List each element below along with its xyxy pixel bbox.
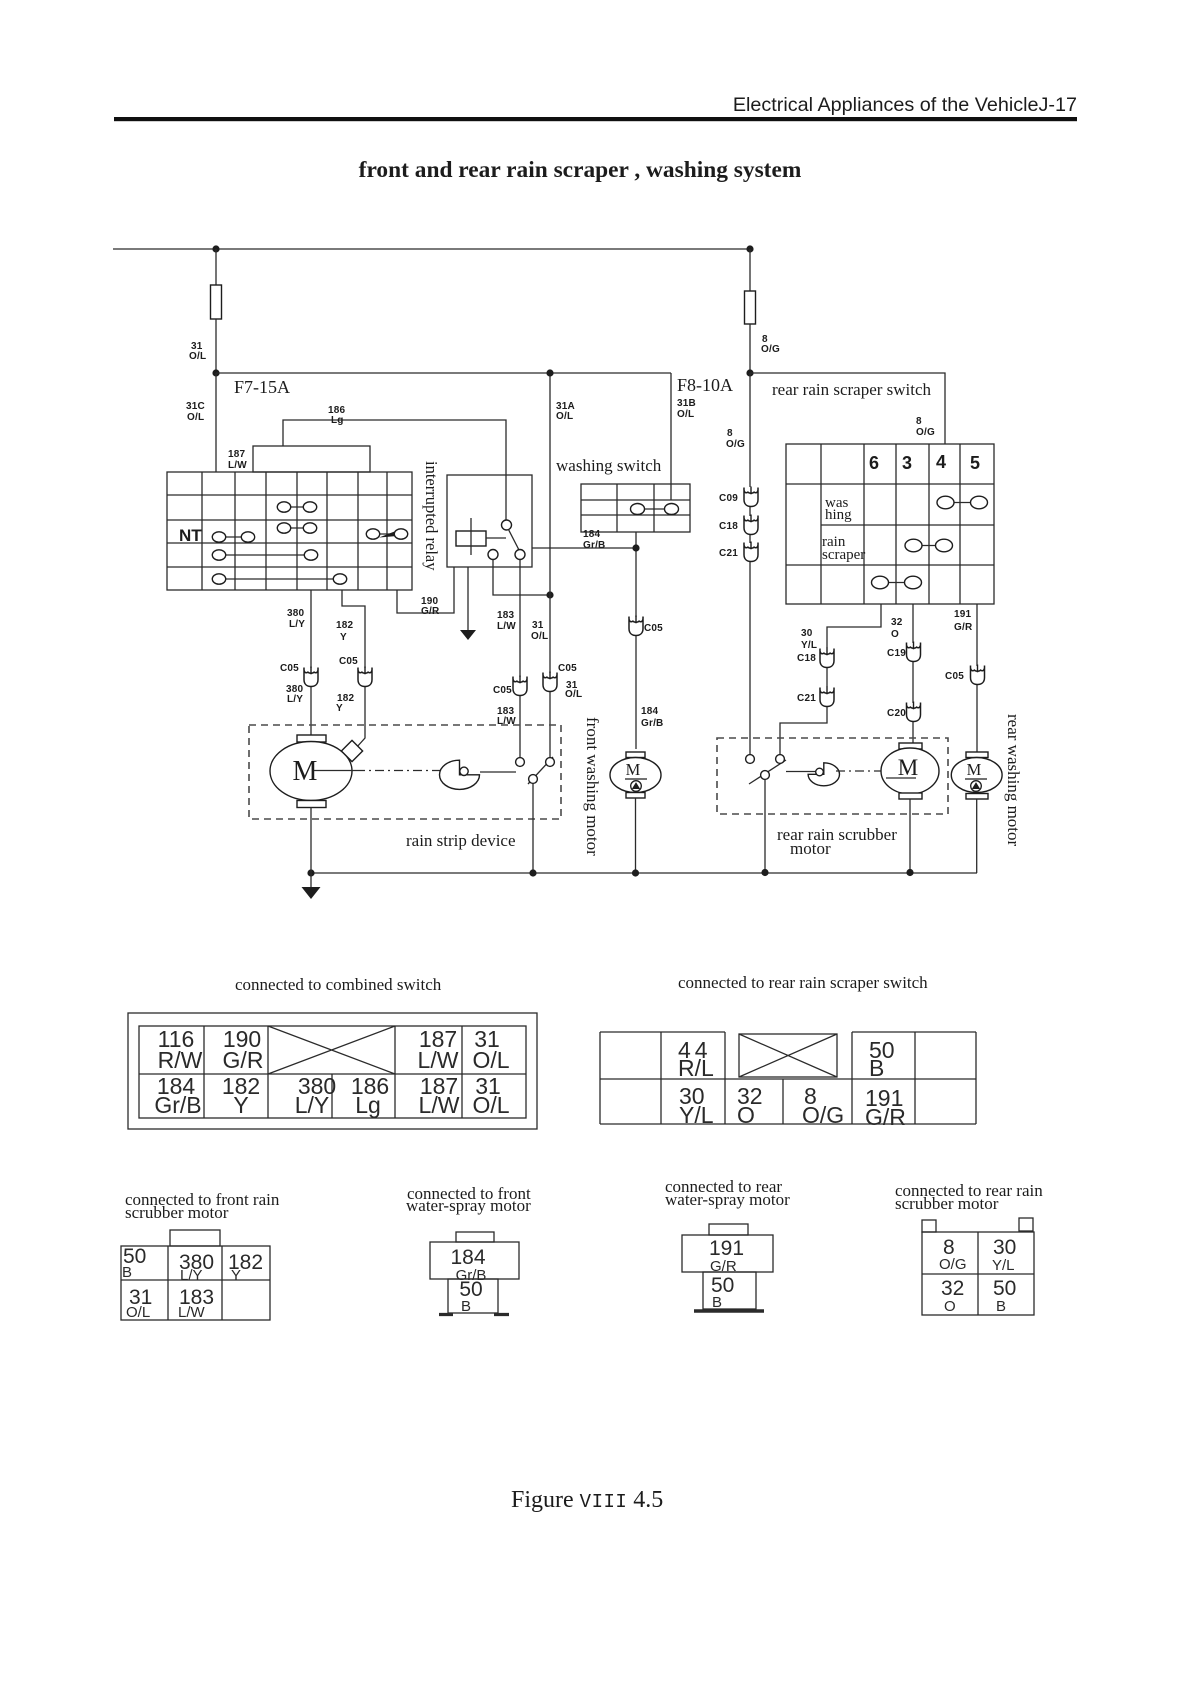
label: net 187 L/W [228,449,247,471]
op: interrupted relay box [447,475,532,567]
wire: battery supply bus (top) [113,248,751,250]
park switch: front wiper, contact 183 [516,758,525,767]
svg-text:C19: C19 [887,648,906,659]
cam: rear wiper park cam [786,763,840,786]
relay contact: right (net 183) [515,550,525,560]
svg-text:G/R: G/R [421,606,440,617]
svg-text:O/L: O/L [472,1047,509,1073]
pin 184 Gr/B [154,1073,201,1118]
crossed-out cell (combined switch table) [268,1026,395,1074]
svg-text:interrupted relay: interrupted relay [422,461,441,571]
svg-text:L/W: L/W [419,1092,460,1118]
connector C05 on net 184 [629,616,663,636]
svg-text:C05: C05 [945,671,964,682]
svg-text:front and rear rain scraper ,: front and rear rain scraper , washing sy… [359,157,802,183]
svg-text:L/W: L/W [178,1304,206,1321]
svg-text:front washing motor: front washing motor [583,717,602,856]
svg-text:rear rain scraper switch: rear rain scraper switch [772,380,932,399]
svg-text:C20: C20 [887,708,906,719]
svg-text:hing: hing [825,507,852,523]
wire: net 190 G/R from switch to interrupted relay [397,567,454,613]
pin 182 Y (table) [228,1251,263,1284]
wire: net 30 Y/L switch pin 6 to rear park switch [780,604,881,754]
svg-text:32: 32 [941,1277,964,1300]
pin 182 Y [222,1073,260,1118]
svg-text:O: O [944,1298,956,1315]
svg-text:O/G: O/G [916,427,935,438]
label: net 30 Y/L [801,628,817,651]
crossed-out cell (rear switch table) [739,1034,837,1077]
pin 50 B (rear washer) [711,1274,734,1311]
svg-text:Electrical Appliances of the V: Electrical Appliances of the VehicleJ-17 [733,94,1077,116]
junction: node 31C [212,369,219,376]
relay contact: left (to net 31A) [488,550,498,560]
pin 187 L/W (top) [418,1026,459,1073]
junction: net 31A leaves F7 rail [546,369,553,376]
connector C05 on net 183 [493,676,527,697]
header rule [114,117,1077,121]
svg-text:30: 30 [801,628,813,639]
svg-text:C05: C05 [644,623,663,634]
wire: net 31C into front rain scraper switch [215,373,217,472]
svg-text:O/L: O/L [189,351,206,362]
svg-text:L/W: L/W [497,621,516,632]
svg-text:Y: Y [340,632,347,643]
fuse F7-15A [211,285,222,319]
contact: front switch row4 [212,550,317,560]
pin 32 O (rear scrubber) [941,1277,964,1315]
svg-text:6: 6 [869,453,879,473]
pin 116 R/W [158,1026,203,1073]
caption: connected to front rain scrubber motor [125,1190,280,1222]
svg-text:L/Y: L/Y [295,1092,330,1118]
svg-text:50: 50 [993,1277,1016,1300]
svg-text:184: 184 [641,706,659,717]
label: net 8 O/G (at fuse) [761,334,780,355]
label: net 8 O/G (at switch) [916,416,935,438]
wire: rear park switch pivot to ground bus [764,780,766,873]
svg-text:8: 8 [916,416,922,427]
svg-text:C18: C18 [797,653,816,664]
label: net 31 O/L [189,341,206,362]
wire: front park switch pivot to ground bus [532,784,534,874]
svg-text:G/R: G/R [865,1104,906,1130]
connector C05 on net 380 [280,663,318,687]
wire: net 186 Lg (switch to interrupted relay) [283,420,506,521]
contact: rear switch bottom row [872,576,922,589]
rear rain scraper switch body (grid) [786,444,994,604]
svg-text:187: 187 [228,449,246,460]
svg-text:C21: C21 [797,693,816,704]
relay contact lever [509,530,520,551]
svg-text:G/R: G/R [710,1258,737,1275]
pin 380 L/Y (table) [179,1251,214,1284]
washing switch body [581,484,690,532]
svg-text:32: 32 [891,617,903,628]
pin 8 O/G [802,1083,844,1128]
junction: net 8 node [746,369,753,376]
wire: net 8 O/G down to rear park switch [749,373,751,754]
svg-text:L/W: L/W [228,460,247,471]
svg-text:380: 380 [287,608,305,619]
contact: rear switch rain scraper row [905,539,953,552]
svg-text:scrubber motor: scrubber motor [125,1203,229,1222]
svg-text:C05: C05 [339,656,358,667]
pin 186 Lg [351,1073,389,1118]
label: washing position [825,495,852,523]
svg-text:C09: C09 [719,493,738,504]
svg-text:O/L: O/L [565,689,582,700]
wire: net 31B O/L into washing switch [670,373,672,500]
motor: front wiper motor M [270,735,352,808]
park switch: rear wiper, pivot [761,771,770,780]
svg-text:191: 191 [709,1237,744,1260]
label: net 190 G/R [421,596,440,617]
wire: fuse F8 lower lead [749,324,751,373]
pin 50 B (front washer) [459,1278,482,1315]
connector table: front rain scrubber motor [121,1230,270,1320]
contact: front switch row3 left [212,532,254,542]
svg-text:G/R: G/R [223,1047,264,1073]
wire: net 8 O/G fuse F8 upper lead [749,249,751,291]
mechanical link: cam to rear motor (dash-dot) [836,770,881,772]
svg-text:C05: C05 [558,663,577,674]
connector table: rear rain scraper switch [600,1032,976,1124]
motor: front washing motor M [610,752,661,798]
motor: rear washing motor M [951,752,1002,799]
link: cam to park switch [480,771,516,773]
svg-text:L/W: L/W [418,1047,459,1073]
svg-text:O/L: O/L [187,412,204,423]
pin 8 O/G (rear scrubber) [939,1236,967,1273]
svg-text:183: 183 [497,610,515,621]
svg-text:B: B [996,1298,1006,1315]
connector: front water-spray motor [430,1232,519,1315]
park switch: front wiper, lever [528,757,553,784]
svg-text:motor: motor [790,839,831,858]
pin 50 B (rear scrubber) [993,1277,1016,1315]
pin 184 Gr/B (connector) [450,1246,486,1284]
contact: front switch row3 right with wiper wedge [366,529,407,539]
connector C18 on net 30 [797,648,834,668]
wire: net 183 L/W relay to wiper park switch [519,560,521,758]
svg-text:C21: C21 [719,548,738,559]
junction: net 184 node [632,544,639,551]
svg-text:O/G: O/G [802,1102,844,1128]
wire: net 8 O/G rail to rear rain scraper switch pin 4 [750,373,945,444]
wire: washing switch output / relay link, net 184 [532,532,636,749]
label: net 31A O/L [556,401,575,422]
junction: node on net 31A [546,591,553,598]
svg-text:O/L: O/L [677,409,694,420]
svg-text:31C: 31C [186,401,205,412]
park switch: rear wiper, contact 30 [776,755,785,764]
wire: F7 feed rail to washing switch / F8 branch [216,372,671,374]
pin 31 O/L (top) [472,1026,509,1073]
connector table: rear rain scrubber motor [922,1218,1034,1315]
wire: net 191 G/R switch pin 5 to rear washing motor [976,604,978,752]
junction: ground bus / front washing motor [632,869,639,876]
pin 31 O/L (front scrubber) [126,1286,152,1321]
wire: relay ground lead [467,567,469,630]
contact: front switch row5 [212,574,346,584]
wire: net 31A O/L from F7 rail down to park switch [549,373,551,757]
pump symbol: front washing motor [625,779,647,791]
pin 380 L/Y [295,1073,336,1118]
svg-text:4: 4 [936,452,946,472]
svg-text:B: B [712,1294,722,1311]
motor: rear wiper motor M [881,743,939,799]
svg-text:O/L: O/L [126,1304,150,1321]
junction: ground bus / wiper motor [307,869,314,876]
svg-text:O/G: O/G [726,439,745,450]
svg-text:R/W: R/W [158,1047,203,1073]
contact: front switch row3 middle [277,523,316,533]
svg-text:Gr/B: Gr/B [641,718,663,729]
wire: net 380 L/Y from switch to front wiper motor [310,590,312,735]
label: rain scraper position [822,534,865,563]
relay coil [456,518,506,555]
wire: rear washing motor to ground bus [976,799,978,873]
relay contact: common (net 186) [502,520,512,530]
svg-text:184: 184 [450,1246,485,1269]
connector C05 on net 191 [945,665,985,685]
label: net 184 Gr/B (at switch) [583,529,605,551]
connector table: combined switch [128,1013,537,1129]
connector C09 on net 8 [719,487,758,507]
svg-text:O/L: O/L [472,1092,509,1118]
wire: relay left contact to node 31A [493,560,550,596]
svg-text:L/Y: L/Y [180,1267,203,1284]
pin 183 L/W (table) [178,1286,214,1321]
svg-text:B: B [869,1055,884,1081]
label: net 183 L/W (upper) [497,610,516,632]
front rain scraper switch body (grid) [167,472,412,590]
svg-text:Lg: Lg [355,1092,381,1118]
pin 191 G/R (connector) [709,1237,744,1275]
svg-text:F7-15A: F7-15A [234,377,290,397]
svg-text:Y/L: Y/L [992,1257,1015,1274]
pin 187 L/W (bottom) [419,1073,460,1118]
label: net 186 Lg [328,405,346,426]
ground: below interrupted relay [460,630,476,640]
park switch: front wiper, pivot [529,775,538,784]
pin 30 Y/L (rear scrubber) [992,1236,1016,1274]
fuse F8-10A [745,291,756,324]
svg-text:M: M [898,755,918,780]
junction: bus / fuse F7 tap [212,245,219,252]
svg-text:182: 182 [336,620,354,631]
terminal: wiper motor armature (net 182) [341,740,362,761]
pin 50 B (top) [869,1037,895,1081]
svg-text:rain strip device: rain strip device [406,831,516,850]
park switch: rear wiper, contact 8 [746,755,755,764]
connector C05 on net 182 [339,656,372,687]
connector C19 on net 32 [887,642,921,662]
svg-text:scraper: scraper [822,547,865,563]
svg-text:C05: C05 [280,663,299,674]
wire: fuse F7 upper lead [215,249,217,285]
svg-text:191: 191 [954,609,972,620]
wire: ground bus (bottom) [311,872,977,874]
svg-text:8: 8 [727,428,733,439]
connector C21 on net 8 [719,542,758,562]
junction: ground bus / rear park switch [761,869,768,876]
contact: washing switch [631,504,679,515]
svg-text:O: O [891,629,899,640]
svg-text:O/L: O/L [531,631,548,642]
pin 190 G/R [223,1026,264,1073]
svg-text:L/Y: L/Y [289,619,305,630]
mechanical link: motor to cam (dash-dot) [356,770,444,772]
svg-text:F8-10A: F8-10A [677,375,733,395]
connector block on top of front rain scraper switch [253,446,370,472]
connector: rear water-spray motor [682,1224,773,1311]
wire: net 182 Y from switch to wiper motor armature [342,590,365,748]
svg-text:water-spray motor: water-spray motor [665,1190,790,1209]
label: net 32 O [891,617,903,640]
svg-text:O/G: O/G [761,344,780,355]
caption: connected to front water-spray motor [406,1184,531,1215]
svg-text:C05: C05 [493,685,512,696]
connector C05 on net 31 [543,663,577,692]
pin 191 G/R [865,1085,906,1130]
pin 32 O [737,1083,763,1128]
pump symbol: rear washing motor [965,779,987,791]
label: net 31B O/L [677,398,696,420]
pin 50 B (front scrubber) [122,1245,146,1281]
label: net 184 Gr/B (at motor) [641,706,663,729]
caption: connected to rear rain scrubber motor [895,1181,1043,1213]
svg-text:connected to rear rain scraper: connected to rear rain scraper switch [678,973,928,992]
svg-text:M: M [967,760,982,779]
label: net 380 L/Y (upper) [287,608,305,630]
svg-text:connected to combined switch: connected to combined switch [235,975,442,994]
label: rear rain scrubber motor [777,825,897,858]
wire: fuse F7 lower lead, net 31 O/L [215,319,217,373]
svg-text:R/L: R/L [678,1055,714,1081]
svg-text:Y: Y [233,1092,248,1118]
svg-text:O: O [737,1102,755,1128]
svg-text:O/G: O/G [939,1256,967,1273]
svg-text:3: 3 [902,453,912,473]
svg-text:Gr/B: Gr/B [583,540,605,551]
label: net 191 G/R [954,609,973,633]
svg-text:30: 30 [993,1236,1016,1259]
svg-text:L/Y: L/Y [287,694,303,705]
pin 30 Y/L [679,1083,714,1128]
svg-text:G/R: G/R [954,622,973,633]
label: net 8 O/G (mid) [726,428,745,450]
svg-text:B: B [461,1298,471,1315]
svg-text:31: 31 [532,620,544,631]
svg-text:M: M [293,756,318,787]
rain strip device enclosure (dashed) [249,725,561,819]
wire: net 32 O switch pin 3 to rear wiper motor [912,604,914,744]
label: net 182 Y (upper) [336,620,354,643]
label: net 380 L/Y (lower) [286,684,304,705]
svg-text:Figure VIII 4.5: Figure VIII 4.5 [511,1487,663,1513]
svg-text:Lg: Lg [331,415,344,426]
park switch: front wiper, contact 31 [546,758,555,767]
shaft line: wiper motor [314,770,356,772]
label: net 31 O/L (mid) [531,620,548,642]
pin 44 R/L [678,1037,714,1081]
connector C21 on net 30 [797,687,834,707]
connector C18 on net 8 [719,515,758,535]
wire: front wiper motor to ground bus [310,808,312,874]
pin 31 O/L (bottom) [472,1073,509,1118]
wire: rear wiper motor to ground bus [909,799,911,872]
svg-text:Y: Y [231,1267,241,1284]
wire: front washing motor to ground bus [635,798,637,873]
connector C20 on net 32 [887,702,921,722]
contact: rear switch washing row [937,496,988,509]
ground: main ground symbol [302,873,321,899]
svg-text:31B: 31B [677,398,696,409]
rear rain scrubber motor enclosure (dashed) [717,738,948,814]
label: net 183 L/W (lower) [497,706,516,727]
svg-text:Y: Y [336,703,343,714]
label: net 182 Y (lower) [336,693,355,714]
svg-text:washing switch: washing switch [556,456,662,475]
svg-text:5: 5 [970,453,980,473]
svg-text:scrubber motor: scrubber motor [895,1194,999,1213]
label: net 31 O/L (lower) [565,680,582,700]
junction: ground bus / rear wiper motor [906,869,913,876]
svg-text:Y/L: Y/L [679,1102,714,1128]
svg-text:Y/L: Y/L [801,640,817,651]
contact: front switch row2 [277,502,316,512]
svg-text:Gr/B: Gr/B [154,1092,201,1118]
svg-text:water-spray motor: water-spray motor [406,1196,531,1215]
svg-text:O/L: O/L [556,411,573,422]
svg-text:184: 184 [583,529,601,540]
label: net 31C O/L [186,401,205,423]
svg-text:B: B [122,1264,132,1281]
junction: bus / fuse F8 tap [746,245,753,252]
caption: connected to rear water-spray motor [665,1177,790,1209]
cam: front wiper park cam [440,760,480,789]
junction: ground bus / park switch [529,869,536,876]
svg-text:C18: C18 [719,521,738,532]
park switch: rear wiper, lever [749,760,786,784]
svg-text:M: M [626,760,641,779]
svg-text:rear washing motor: rear washing motor [1004,714,1023,847]
svg-text:NT: NT [179,526,202,545]
